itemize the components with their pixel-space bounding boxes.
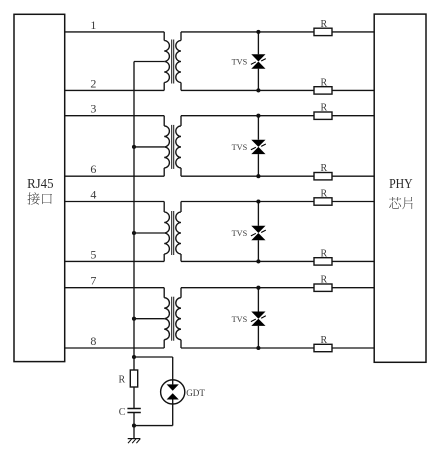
svg-text:GDT: GDT: [186, 389, 205, 399]
wire RJ45 pin 6 to transformer T2 primary bottom: [65, 175, 165, 177]
svg-text:RJ45: RJ45: [27, 177, 53, 192]
svg-text:PHY: PHY: [389, 177, 413, 192]
GDT gas discharge tube: [161, 380, 185, 404]
wire resistor to PHY (bottom, ch3): [332, 260, 374, 262]
wire RJ45 pin 5 to transformer T3 primary bottom: [65, 260, 165, 262]
wire RJ45 pin 3 to transformer T2 primary top: [65, 115, 165, 117]
transformer T1 secondary winding: [176, 32, 181, 91]
wire bus to GDT (top): [134, 356, 173, 358]
wire R to C: [133, 387, 135, 408]
svg-text:1: 1: [90, 18, 96, 32]
junction center-tap bus / T2: [132, 145, 136, 149]
wire TVS D3 anode-top: [257, 202, 259, 226]
svg-text:R: R: [320, 275, 327, 286]
resistor R (channel wire y=31.9): [314, 19, 332, 36]
ground symbol: [128, 439, 141, 444]
wire T4 secondary bottom to resistor: [181, 347, 314, 349]
resistor R (channel wire y=90.4): [314, 77, 332, 94]
resistor R (shunt, bottom): [119, 370, 138, 387]
wire GDT to ground return: [172, 400, 174, 426]
resistor R (channel wire y=115.7): [314, 103, 332, 120]
transformer T1 core: [172, 40, 174, 84]
wire RJ45 pin 4 to transformer T3 primary top: [65, 201, 165, 203]
svg-text:TVS: TVS: [232, 143, 248, 152]
resistor R (channel wire y=287.7): [314, 275, 332, 292]
wire transformer T2 center tap to bus: [134, 146, 164, 148]
transformer T1 primary winding: [164, 32, 169, 91]
wire resistor to PHY (bottom, ch4): [332, 347, 374, 349]
transformer T4 core: [172, 297, 174, 341]
junction TVS D2 top: [256, 114, 260, 118]
junction TVS D1 bottom: [256, 88, 260, 92]
wire RJ45 pin 8 to transformer T4 primary bottom: [65, 347, 165, 349]
capacitor C: [119, 407, 141, 418]
svg-text:C: C: [119, 407, 126, 418]
transformer T2 primary winding: [164, 116, 169, 177]
svg-text:7: 7: [90, 274, 96, 288]
transformer T4 secondary winding: [176, 288, 181, 348]
wire resistor to PHY (top, ch2): [332, 115, 374, 117]
resistor R (channel wire y=348.0): [314, 335, 332, 352]
svg-text:R: R: [119, 374, 126, 385]
junction TVS D2 bottom: [256, 174, 260, 178]
TVS diode D4 (bidirectional): [251, 312, 266, 326]
transformer T3 primary winding: [164, 202, 169, 262]
svg-text:5: 5: [90, 247, 96, 261]
wire TVS D2 anode-bottom: [257, 154, 259, 176]
svg-text:R: R: [320, 335, 327, 346]
wire resistor to PHY (top, ch3): [332, 201, 374, 203]
wire T3 secondary top to resistor: [181, 201, 314, 203]
transformer T4 primary winding: [164, 288, 169, 348]
RJ45 connector box: [14, 14, 65, 361]
svg-text:R: R: [320, 77, 327, 88]
junction center-tap bus / T3: [132, 231, 136, 235]
svg-text:R: R: [320, 163, 327, 174]
wire resistor to PHY (top, ch4): [332, 287, 374, 289]
wire resistor to PHY (bottom, ch1): [332, 89, 374, 91]
junction bus / GDT branch: [132, 355, 136, 359]
junction TVS D4 top: [256, 286, 260, 290]
wire center-tap bus (vertical): [133, 62, 135, 371]
wire T2 secondary top to resistor: [181, 115, 314, 117]
svg-text:6: 6: [90, 162, 96, 176]
svg-text:2: 2: [90, 76, 96, 90]
wire GDT return to bus: [134, 425, 173, 427]
junction C / GDT return: [132, 424, 136, 428]
svg-text:TVS: TVS: [232, 58, 248, 67]
wire transformer T3 center tap to bus: [134, 232, 164, 234]
resistor R (channel wire y=261.4): [314, 248, 332, 265]
wire T2 secondary bottom to resistor: [181, 175, 314, 177]
svg-text:3: 3: [90, 102, 96, 116]
junction TVS D3 bottom: [256, 259, 260, 263]
wire transformer T1 center tap to bus: [134, 61, 164, 63]
wire T3 secondary bottom to resistor: [181, 260, 314, 262]
wire T1 secondary bottom to resistor: [181, 89, 314, 91]
wire TVS D1 anode-top: [257, 32, 259, 54]
wire TVS D4 anode-top: [257, 288, 259, 312]
svg-text:R: R: [320, 19, 327, 30]
label 芯片 (chip): [389, 197, 413, 209]
TVS diode D3 (bidirectional): [251, 226, 266, 240]
svg-text:4: 4: [90, 188, 96, 202]
svg-text:TVS: TVS: [232, 229, 248, 238]
junction TVS D1 top: [256, 30, 260, 34]
PHY chip box: [374, 14, 426, 362]
wire RJ45 pin 2 to transformer T1 primary bottom: [65, 89, 165, 91]
transformer T2 core: [172, 125, 174, 169]
wire TVS D4 anode-bottom: [257, 326, 259, 348]
wire TVS D2 anode-top: [257, 116, 259, 140]
wire TVS D3 anode-bottom: [257, 240, 259, 261]
transformer T3 secondary winding: [176, 202, 181, 262]
transformer T3 core: [172, 211, 174, 255]
svg-text:8: 8: [90, 334, 96, 348]
wire RJ45 pin 1 to transformer T1 primary top: [65, 31, 165, 33]
wire T1 secondary top to resistor: [181, 31, 314, 33]
junction TVS D3 top: [256, 199, 260, 203]
svg-text:R: R: [320, 103, 327, 114]
TVS diode D2 (bidirectional): [251, 140, 266, 154]
junction center-tap bus / T4: [132, 317, 136, 321]
wire RJ45 pin 7 to transformer T4 primary top: [65, 287, 165, 289]
resistor R (channel wire y=176.2): [314, 163, 332, 180]
junction TVS D4 bottom: [256, 346, 260, 350]
wire resistor to PHY (top, ch1): [332, 31, 374, 33]
TVS diode D1 (bidirectional): [251, 54, 266, 68]
svg-text:TVS: TVS: [232, 315, 248, 324]
wire T4 secondary top to resistor: [181, 287, 314, 289]
wire C to ground: [133, 413, 135, 439]
svg-text:R: R: [320, 189, 327, 200]
wire transformer T4 center tap to bus: [134, 318, 164, 320]
wire down to GDT: [172, 357, 174, 384]
resistor R (channel wire y=201.5): [314, 189, 332, 206]
wire TVS D1 anode-bottom: [257, 69, 259, 91]
wire resistor to PHY (bottom, ch2): [332, 175, 374, 177]
svg-text:R: R: [320, 248, 327, 259]
transformer T2 secondary winding: [176, 116, 181, 177]
label 接口 (interface): [28, 192, 52, 204]
